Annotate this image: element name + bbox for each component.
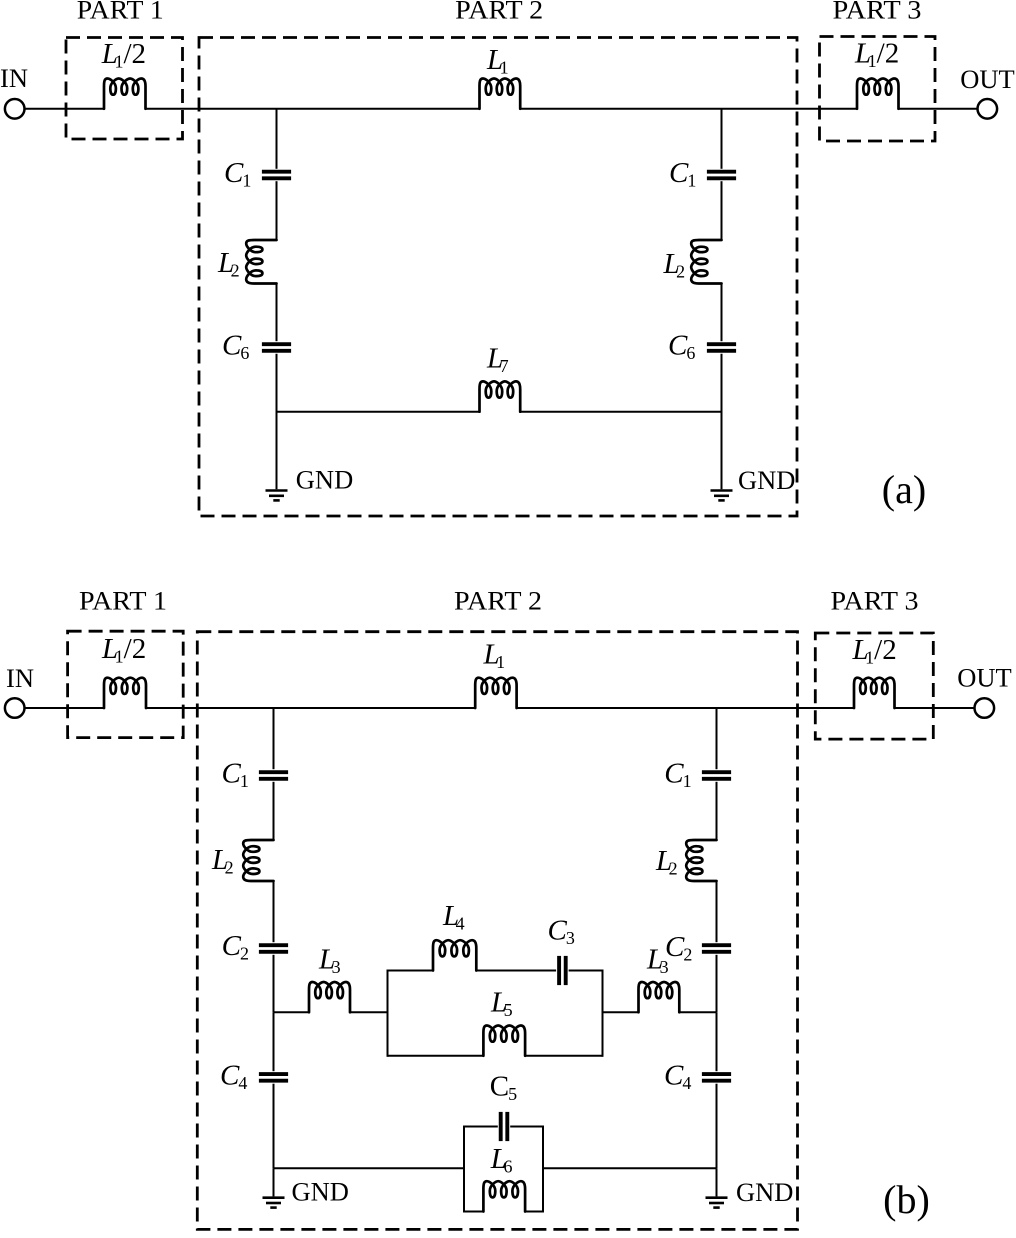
figure (a) wire L1/2 to OUT bbox=[899, 108, 978, 110]
svg-text:(a): (a) bbox=[882, 467, 926, 512]
figure (b) wire C4 to node E (left) bbox=[273, 1084, 275, 1169]
figure (a) inductor L7 label bbox=[486, 343, 509, 377]
figure (b) capacitor C4 (right) bbox=[702, 1074, 731, 1081]
figure (b) capacitor C2 (right) bbox=[702, 945, 731, 952]
figure (a) wire node B to C1 (right) bbox=[721, 109, 723, 169]
figure (b) caption bbox=[883, 1177, 930, 1222]
figure (b) PART 2 dashed box bbox=[197, 632, 797, 1230]
figure (b) capacitor C5 label bbox=[490, 1071, 517, 1105]
figure (b) wire C2 to node C (left) bbox=[273, 955, 275, 1013]
figure (b) OUT label bbox=[957, 663, 1011, 693]
figure (a) capacitor C6 label (right) bbox=[668, 330, 695, 364]
figure (b) capacitor C2 label (left) bbox=[222, 930, 249, 964]
figure (a) wire L2 to C6 (left) bbox=[276, 284, 278, 342]
figure (b) wire L2 to C2 (left) bbox=[273, 881, 275, 942]
figure (b) capacitor C1 label (left) bbox=[222, 758, 249, 792]
figure (a) inductor L1 bbox=[480, 79, 521, 109]
figure (b) GND label (left) bbox=[292, 1177, 349, 1207]
figure (b) PART 3 dashed box bbox=[815, 633, 933, 739]
svg-text:OUT: OUT bbox=[957, 663, 1011, 693]
figure (b) PART 1 label bbox=[79, 586, 167, 616]
figure (b) capacitor C1 label (right) bbox=[664, 758, 691, 792]
figure (b) C5/L6 box right edge bbox=[542, 1126, 544, 1213]
figure (b) wire node A to C1 (left) bbox=[273, 708, 275, 769]
figure (a) wire IN to L1/2 bbox=[25, 108, 104, 110]
figure (a) IN label bbox=[0, 63, 28, 93]
svg-text:(b): (b) bbox=[883, 1177, 930, 1222]
figure (b) inductor L6 label bbox=[490, 1143, 513, 1177]
figure (a) GND label (left) bbox=[296, 465, 353, 495]
figure (a) GND label (right) bbox=[738, 465, 795, 495]
figure (b) C5/L6 box bottom-right wire bbox=[525, 1211, 543, 1213]
figure (b) resonator box right edge bbox=[602, 970, 604, 1057]
figure (b) inductor L6 bbox=[483, 1181, 525, 1211]
figure (b) inductor L1/2 (right) bbox=[854, 678, 895, 708]
figure (a) wire C1 to L2 (right) bbox=[721, 181, 723, 240]
figure (a) inductor L2 (left) bbox=[246, 240, 276, 284]
figure (a) capacitor C6 label (left) bbox=[222, 330, 249, 364]
figure (a) inductor L1/2 label (right) bbox=[854, 38, 899, 72]
figure (b) capacitor C4 label (right) bbox=[664, 1060, 691, 1094]
figure (b) inductor L2 label (left) bbox=[211, 844, 234, 878]
figure (b) inductor L3 label (left) bbox=[318, 944, 341, 978]
figure (a) wire C1 to L2 (left) bbox=[276, 181, 278, 240]
figure (b) inductor L4 label bbox=[442, 900, 465, 934]
figure (b) inductor L3 (right) bbox=[639, 982, 680, 1012]
figure (b) ground symbol (left) bbox=[263, 1198, 285, 1208]
svg-text:PART 3: PART 3 bbox=[831, 586, 919, 616]
figure (a) capacitor C6 (left) bbox=[262, 344, 291, 351]
figure (b) capacitor C2 (left) bbox=[259, 945, 288, 952]
figure (b) PART 1 dashed box bbox=[68, 631, 184, 737]
figure (b) OUT terminal bbox=[975, 698, 995, 718]
figure (a) inductor L2 label (right) bbox=[663, 248, 686, 282]
figure (a) PART 1 label bbox=[77, 0, 164, 25]
figure (b) wire node E to C5/L6 box bbox=[274, 1167, 465, 1169]
figure (a) inductor L2 (right) bbox=[691, 240, 721, 284]
figure (b) C5/L6 box bottom-left wire bbox=[464, 1211, 483, 1213]
svg-text:OUT: OUT bbox=[960, 64, 1014, 94]
figure (b) capacitor C4 label (left) bbox=[220, 1060, 247, 1094]
figure (b) capacitor C4 (left) bbox=[259, 1074, 288, 1081]
figure (a) capacitor C1 (right) bbox=[707, 172, 736, 179]
figure (a) wire left branch to L7 bbox=[277, 411, 480, 413]
figure (a) OUT terminal bbox=[978, 99, 998, 119]
figure (a) capacitor C1 (left) bbox=[262, 172, 291, 179]
svg-text:L1/2: L1/2 bbox=[101, 633, 146, 667]
figure (b) capacitor C5 bbox=[501, 1112, 508, 1141]
figure (a) capacitor C1 label (right) bbox=[669, 157, 696, 191]
figure (b) resonator box bottom-right wire bbox=[525, 1055, 602, 1057]
figure (a) IN terminal bbox=[5, 99, 25, 119]
figure (a) PART 3 dashed box bbox=[820, 37, 936, 142]
figure (b) capacitor C3 bbox=[559, 956, 566, 985]
figure (a) inductor L1/2 (right) bbox=[857, 79, 899, 109]
figure (b) inductor L1 label bbox=[483, 639, 506, 673]
figure (b) capacitor C2 label (right) bbox=[665, 931, 692, 965]
figure (b) PART 2 label bbox=[454, 586, 542, 616]
figure (b) capacitor C1 (right) bbox=[702, 772, 731, 779]
figure (b) C5/L6 box top-left wire bbox=[464, 1126, 498, 1128]
figure (b) PART 3 label bbox=[831, 586, 919, 616]
figure (b) inductor L4 bbox=[433, 940, 476, 970]
figure (b) inductor L5 label bbox=[490, 986, 513, 1020]
figure (b) resonator box bottom-left wire bbox=[388, 1055, 484, 1057]
figure (a) PART 2 dashed box bbox=[199, 38, 797, 517]
figure (b) inductor L2 (left) bbox=[243, 840, 273, 881]
figure (a) PART 1 dashed box bbox=[66, 38, 183, 140]
figure (a) ground symbol (left) bbox=[266, 491, 288, 501]
figure (b) wire resonator box to L3 (right) bbox=[603, 1011, 639, 1013]
figure (a) capacitor C6 (right) bbox=[707, 344, 736, 351]
figure (b) inductor L5 bbox=[483, 1026, 525, 1056]
figure (b) wire node F to ground (right) bbox=[716, 1168, 718, 1196]
svg-text:PART 1: PART 1 bbox=[79, 586, 167, 616]
svg-text:PART 1: PART 1 bbox=[77, 0, 164, 25]
svg-text:L1/2: L1/2 bbox=[101, 38, 146, 72]
figure (b) IN label bbox=[6, 663, 34, 693]
figure (b) C5/L6 box top-right wire bbox=[510, 1126, 543, 1128]
svg-text:L1/2: L1/2 bbox=[854, 38, 899, 72]
figure (a) inductor L1/2 label (left) bbox=[101, 38, 146, 72]
figure (b) wire C1 to L2 (left) bbox=[273, 782, 275, 840]
figure (b) wire C1 to L2 (right) bbox=[716, 782, 718, 840]
figure (a) inductor L1 label bbox=[486, 44, 509, 78]
figure (b) wire IN to L1/2 bbox=[25, 707, 104, 709]
figure (b) inductor L3 (left) bbox=[309, 982, 350, 1012]
figure (b) inductor L2 label (right) bbox=[655, 845, 678, 879]
figure (b) wire L3 to node D (right) bbox=[679, 1011, 716, 1013]
figure (a) wire node A to C1 (left) bbox=[276, 109, 278, 169]
figure (b) wire L3 to resonator box (left) bbox=[350, 1011, 388, 1013]
figure (a) PART 3 label bbox=[833, 0, 922, 25]
svg-text:IN: IN bbox=[6, 663, 34, 693]
figure (b) capacitor C1 (left) bbox=[259, 772, 288, 779]
figure (b) GND label (right) bbox=[736, 1177, 793, 1207]
svg-text:GND: GND bbox=[738, 465, 795, 495]
figure (b) inductor L2 (right) bbox=[686, 840, 716, 881]
figure (b) ground symbol (right) bbox=[706, 1198, 728, 1208]
figure (b) wire L1 to L1/2 bbox=[517, 707, 854, 709]
figure (b) wire L1/2 to L1 bbox=[146, 707, 475, 709]
figure (b) inductor L1/2 label (right) bbox=[852, 634, 897, 668]
figure (a) wire L1/2 to L1 bbox=[146, 108, 480, 110]
svg-text:PART 3: PART 3 bbox=[833, 0, 922, 25]
figure (b) wire C4 to node F (right) bbox=[716, 1084, 718, 1169]
svg-text:PART 2: PART 2 bbox=[455, 0, 543, 25]
svg-text:IN: IN bbox=[0, 63, 28, 93]
figure (b) wire L4 to C3 bbox=[476, 970, 556, 972]
figure (b) wire C2 to node D (right) bbox=[716, 955, 718, 1013]
svg-text:GND: GND bbox=[292, 1177, 349, 1207]
figure (b) IN terminal bbox=[5, 698, 25, 718]
figure (b) wire L2 to C2 (right) bbox=[716, 881, 718, 942]
figure (a) inductor L1/2 (left) bbox=[104, 79, 146, 109]
figure (a) inductor L2 label (left) bbox=[217, 247, 240, 281]
figure (a) PART 2 label bbox=[455, 0, 543, 25]
figure (b) wire node D to C4 (right) bbox=[716, 1012, 718, 1071]
figure (b) inductor L1/2 (left) bbox=[104, 678, 146, 708]
figure (b) resonator box left edge bbox=[387, 970, 389, 1057]
figure (b) inductor L3 label (right) bbox=[646, 944, 669, 978]
figure (b) capacitor C3 label bbox=[548, 915, 575, 949]
svg-text:L1/2: L1/2 bbox=[852, 634, 897, 668]
svg-text:GND: GND bbox=[736, 1177, 793, 1207]
figure (a) OUT label bbox=[960, 64, 1014, 94]
figure (b) wire node B to C1 (right) bbox=[716, 708, 718, 769]
figure (a) wire L2 to C6 (right) bbox=[721, 284, 723, 342]
figure (a) wire C6 to ground (left) bbox=[276, 354, 278, 489]
figure (a) wire L1 to L1/2 bbox=[520, 108, 857, 110]
figure (a) wire L7 to right branch bbox=[520, 411, 721, 413]
figure (b) wire C5/L6 box to node F bbox=[543, 1167, 717, 1169]
figure (b) wire C3 to box corner bbox=[569, 970, 603, 972]
figure (b) wire node C to C4 (left) bbox=[273, 1012, 275, 1071]
figure (a) caption bbox=[882, 467, 926, 512]
figure (b) inductor L1/2 label (left) bbox=[101, 633, 146, 667]
figure (b) resonator box top-left wire bbox=[388, 970, 434, 972]
figure (a) inductor L7 bbox=[480, 381, 521, 411]
figure (a) ground symbol (right) bbox=[711, 491, 733, 501]
figure (b) inductor L1 bbox=[475, 678, 516, 708]
svg-text:PART 2: PART 2 bbox=[454, 586, 542, 616]
figure (b) wire L1/2 to OUT bbox=[895, 707, 975, 709]
figure (b) wire node E to ground (left) bbox=[273, 1168, 275, 1196]
figure (a) capacitor C1 label (left) bbox=[224, 157, 251, 191]
figure (b) wire node C to L3 (left) bbox=[274, 1011, 310, 1013]
figure (b) C5/L6 box left edge bbox=[463, 1126, 465, 1213]
figure (a) wire C6 to ground (right) bbox=[721, 354, 723, 489]
svg-text:GND: GND bbox=[296, 465, 353, 495]
